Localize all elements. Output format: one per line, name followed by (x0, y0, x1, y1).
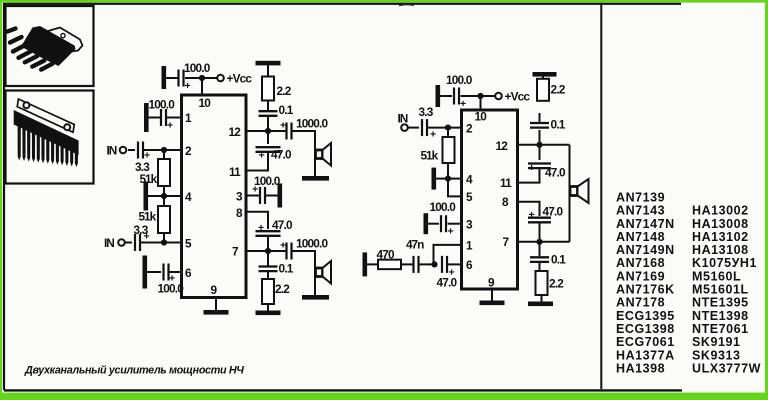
wire resistor to ground (542, 77, 544, 79)
wire node4 to pin 4 (448, 178, 462, 180)
svg-text:+: + (460, 98, 466, 110)
svg-text:NTE1398: NTE1398 (692, 309, 749, 323)
package picture box 2 (straight-pin SIP with flange) (6, 91, 94, 184)
svg-text:NTE1395: NTE1395 (692, 296, 749, 310)
svg-text:11: 11 (229, 165, 241, 179)
node (Vcc node left) (199, 75, 205, 81)
wire (428, 223, 439, 225)
svg-text:100.0: 100.0 (149, 98, 176, 112)
wire to speaker (292, 131, 316, 176)
capacitor 47.0 (pin12-pin11, right) (528, 164, 551, 169)
capacitor 100.0 (pin 3, right) (441, 215, 446, 232)
svg-text:100.0: 100.0 (158, 282, 185, 296)
svg-text:M5160L: M5160L (692, 269, 741, 283)
resistor 2.2 (top, right) (537, 79, 549, 101)
ground (speaker bottom, left) (302, 295, 329, 300)
wire pin 12 to node (518, 144, 540, 146)
ground (top, right) (533, 72, 557, 77)
wire node12 to output cap (268, 130, 286, 132)
part number list column 1 (616, 191, 675, 376)
svg-text:47.0: 47.0 (543, 205, 564, 219)
svg-text:ECG7061: ECG7061 (616, 335, 675, 349)
package 2 flange with two holes (17, 99, 74, 132)
wire pin 8 to cap (518, 202, 540, 216)
svg-text:Двухканальный усилитель мощнос: Двухканальный усилитель мощности НЧ (24, 365, 244, 377)
svg-text:+: + (280, 240, 286, 252)
ground (speaker top, left) (302, 176, 329, 181)
part number list column 2 (692, 204, 761, 376)
svg-text:AN7168: AN7168 (616, 256, 665, 270)
wire to pin 2 (428, 127, 462, 129)
resistor 470 (378, 260, 401, 270)
resistor 2.2 (bottom, right) (536, 271, 548, 295)
node (pin 2, right) (445, 125, 451, 131)
svg-text:+: + (280, 120, 286, 132)
svg-text:2.2: 2.2 (551, 83, 566, 97)
wire resistor to ground (367, 263, 378, 265)
wire node12 up (539, 130, 541, 145)
resistor 2.2 (bottom, left) (262, 279, 274, 304)
wire (440, 95, 452, 97)
op-amp IC U2 (right channel amplifier) (462, 110, 518, 289)
speaker LS2 (left circuit bottom) (316, 261, 332, 284)
svg-text:IN: IN (398, 112, 408, 126)
wire to pin 5 (141, 242, 182, 244)
wire resistor to node5 (163, 233, 165, 243)
wire resistor to ground (541, 295, 543, 302)
wire pin 3 to cap (246, 195, 259, 197)
wire resistor to ground (267, 304, 269, 311)
wire to pin 2 (144, 149, 182, 151)
wire node12 to speaker line (540, 144, 570, 146)
wire cap to pin 11 (246, 152, 268, 171)
svg-text:HA1377A: HA1377A (616, 348, 675, 362)
package 1 metal tab with hole (46, 28, 83, 53)
wire node4 down (163, 196, 165, 206)
svg-text:AN7178: AN7178 (616, 296, 665, 310)
capacitor 3.3 (input, right) (422, 119, 427, 136)
wire pin 7 to node (518, 241, 540, 243)
wire (125, 242, 132, 244)
wire pin 1 to node6 (434, 245, 462, 265)
capacitor 100.0 (Vcc filter, right) (454, 88, 459, 105)
ground (pin 6 RC, right) (363, 252, 368, 276)
input terminal (pin 5) (118, 239, 125, 246)
wire node7 down (539, 242, 541, 256)
wire cap to node7 (539, 223, 541, 242)
wire to pin 3 (448, 223, 462, 225)
svg-text:AN7169: AN7169 (616, 269, 665, 283)
ground (left circuit Vcc filter cap) (162, 66, 167, 89)
package 1 pins (8, 29, 53, 70)
package 2 pins (18, 125, 78, 167)
wire pin 10 to Vcc node (201, 78, 203, 95)
svg-text:10: 10 (199, 96, 212, 110)
svg-text:470: 470 (377, 248, 396, 262)
svg-text:47.0: 47.0 (437, 276, 458, 290)
wire to speaker (292, 251, 316, 295)
wire resistor to node4 (447, 163, 449, 179)
svg-text:47.0: 47.0 (272, 218, 293, 232)
svg-text:11: 11 (500, 176, 512, 190)
ground (top, left) (256, 61, 281, 66)
svg-text:ECG1398: ECG1398 (616, 322, 675, 336)
ground (pin 9, left) (204, 310, 229, 315)
node (pin 5) (161, 239, 167, 245)
op-amp IC U1 (left channel amplifier) (182, 95, 247, 298)
resistor 2.2 (top, left) (262, 77, 274, 101)
svg-text:HA13002: HA13002 (692, 204, 749, 218)
wire cap to ground (265, 195, 278, 197)
svg-text:47.0: 47.0 (545, 166, 566, 180)
bottom frame rule (4, 389, 682, 391)
node (pin 2) (161, 147, 167, 153)
ground (pin 3, right) (424, 213, 429, 234)
svg-text:12: 12 (496, 139, 509, 153)
svg-text:IN: IN (104, 236, 114, 250)
speaker LS (right circuit) (570, 179, 589, 203)
wire node12 down to cap (539, 145, 541, 160)
svg-text:AN7176K: AN7176K (616, 283, 675, 297)
terminal +Vcc (right) (495, 93, 502, 100)
capacitor 47.0 (pin8-pin7) (256, 231, 281, 236)
terminal +Vcc (left) (217, 75, 224, 82)
wire cap to resistor (267, 271, 269, 279)
wire resistor to cap (401, 263, 413, 265)
resistor 51k (pin2-pin4) (158, 159, 170, 186)
wire (408, 127, 419, 129)
svg-text:51k: 51k (421, 149, 439, 163)
capacitor 47.0 (pin12-pin11) (256, 147, 281, 152)
wire node12 up (267, 117, 269, 131)
svg-text:SK9191: SK9191 (692, 335, 740, 349)
node (pin 4) (161, 193, 167, 199)
node (pin 6, right) (431, 261, 437, 267)
wire resistor to ground (267, 65, 269, 77)
capacitor 47n (414, 256, 419, 273)
svg-text:AN7139: AN7139 (616, 191, 665, 205)
svg-text:100.0: 100.0 (254, 174, 281, 188)
wire pin 10 (480, 96, 482, 110)
svg-text:HA13008: HA13008 (692, 217, 749, 231)
wire cap to node7 (267, 236, 269, 251)
svg-text:100.0: 100.0 (446, 73, 473, 87)
svg-text:ECG1395: ECG1395 (616, 309, 675, 323)
wire cap to pin 11 (518, 168, 540, 183)
wire pin 8 to cap (246, 212, 268, 229)
input terminal (pin 2) (120, 147, 127, 154)
svg-text:NTE7061: NTE7061 (692, 322, 749, 336)
wire node4 to ground (148, 195, 164, 197)
resistor 51k (pin4-pin5) (158, 206, 170, 233)
svg-text:1000.0: 1000.0 (296, 117, 329, 131)
wire node4 to ground (436, 178, 448, 180)
svg-text:AN7148: AN7148 (616, 230, 665, 244)
svg-text:0.1: 0.1 (279, 103, 294, 117)
wire node2 down (447, 128, 449, 138)
wire resistor to node4 (163, 186, 165, 196)
wire cap to resistor (267, 101, 269, 111)
capacitor 47.0 (pin8-pin7, right) (528, 218, 551, 223)
svg-text:2.2: 2.2 (275, 282, 290, 296)
wire cap to resistor (539, 113, 541, 123)
package 1 black body (21, 26, 76, 66)
wire node7 to output cap (268, 250, 286, 252)
node (pin 12, left) (265, 128, 271, 134)
wire (185, 77, 217, 79)
scan artifact dash on top rule (399, 4, 414, 5)
wire to pin 1 (167, 117, 182, 119)
svg-text:0.1: 0.1 (551, 253, 566, 267)
svg-text:1000.0: 1000.0 (296, 237, 329, 251)
node (pin 7, left) (265, 248, 271, 254)
svg-text:0.1: 0.1 (279, 262, 294, 276)
svg-text:SK9313: SK9313 (692, 348, 740, 362)
wire node7 to speaker line (540, 241, 570, 243)
capacitor 3.3 (input, pin 2) (138, 142, 143, 159)
svg-text:+: + (529, 209, 535, 221)
capacitor 100.0 (pin 6, left) (164, 264, 169, 281)
wire (128, 149, 135, 151)
wire (461, 95, 496, 97)
ground (pin 4, right) (432, 168, 437, 190)
svg-text:HA13108: HA13108 (692, 243, 749, 257)
svg-text:IN: IN (107, 144, 117, 158)
ground (pin 3, left) (278, 184, 283, 208)
capacitor 0.1 (top, right) (530, 123, 549, 128)
svg-text:51k: 51k (139, 210, 157, 224)
ground (Vcc filter cap, right) (436, 85, 441, 107)
wire pin 9 to ground (215, 298, 217, 311)
node (pin 12, right) (536, 142, 542, 148)
svg-text:100.0: 100.0 (430, 200, 457, 214)
resistor 51k (right) (443, 137, 455, 163)
ground (bottom, left) (256, 311, 281, 316)
wire cap to node6 (420, 263, 435, 265)
svg-text:51k: 51k (140, 172, 158, 186)
svg-text:10: 10 (475, 110, 488, 124)
svg-text:M51601L: M51601L (692, 283, 749, 297)
ground (pin 1 cap, left) (144, 103, 149, 132)
ground (pin 6 cap, left) (143, 256, 148, 289)
node (pin 4, right) (445, 176, 451, 182)
ground (pin 4, left) (144, 182, 149, 211)
capacitor 0.1 (bottom, right) (530, 257, 549, 262)
svg-text:+: + (185, 80, 191, 92)
svg-text:47.0: 47.0 (271, 148, 292, 162)
wire speaker vertical (569, 145, 571, 242)
svg-text:+: + (448, 226, 454, 238)
svg-text:+: + (430, 129, 436, 141)
svg-text:47n: 47n (406, 238, 424, 252)
wire pin 12 to node (246, 130, 268, 132)
capacitor 100.0 (Vcc filter, left) (179, 70, 184, 87)
wire cap to pin 6 (448, 263, 462, 265)
svg-text:AN7147N: AN7147N (616, 217, 675, 231)
wire node2 to resistor (163, 150, 165, 159)
capacitor 100.0 (pin 3, left) (260, 187, 265, 204)
wire pin 9 to ground (491, 289, 493, 301)
svg-text:AN7143: AN7143 (616, 204, 665, 218)
wire (147, 271, 161, 273)
svg-text:0.1: 0.1 (551, 118, 566, 132)
capacitor 0.1 (top, left) (259, 111, 278, 116)
wire node7 down (267, 251, 269, 266)
package 1 tab hole (61, 34, 65, 38)
svg-text:AN7149N: AN7149N (616, 243, 675, 257)
svg-text:3.3: 3.3 (419, 105, 434, 119)
wire node4 to pin4 (164, 195, 182, 197)
capacitor 100.0 (pin 1, left) (161, 109, 166, 126)
capacitor 3.3 (input, pin 5) (135, 234, 140, 251)
svg-text:HA13102: HA13102 (692, 230, 749, 244)
wire (166, 77, 178, 79)
svg-text:K1075УН1: K1075УН1 (692, 256, 757, 270)
wire node12 down to cap (267, 131, 269, 144)
wire (149, 117, 161, 119)
ground (pin 9, right) (480, 301, 505, 306)
divider rule between schematic and part list (600, 4, 602, 389)
input terminal (right) (401, 124, 408, 131)
svg-text:100.0: 100.0 (184, 61, 211, 75)
svg-text:2.2: 2.2 (549, 277, 564, 291)
svg-text:2.2: 2.2 (277, 84, 292, 98)
svg-text:+: + (167, 120, 173, 132)
package 2 black body (14, 110, 79, 155)
svg-text:HA1398: HA1398 (616, 362, 665, 376)
capacitor 1000.0 (output, pin 7) (287, 243, 292, 260)
node (Vcc node right) (477, 93, 483, 99)
svg-text:3.3: 3.3 (134, 223, 149, 237)
speaker LS1 (left circuit top) (316, 143, 332, 166)
capacitor 0.1 (bottom, left) (259, 267, 278, 272)
capacitor 1000.0 (output, pin 12) (287, 123, 292, 140)
wire pin4 to pin5 link (448, 179, 462, 197)
ground (bottom, right) (528, 302, 553, 307)
svg-text:12: 12 (229, 125, 242, 139)
wire cap to resistor (539, 262, 541, 271)
node (pin 7, right) (536, 239, 542, 245)
svg-text:+Vcc: +Vcc (505, 90, 531, 104)
package picture box 1 (zig-zag SIP, 3D view) (6, 6, 94, 86)
wire to pin 6 (170, 271, 182, 273)
svg-text:+Vcc: +Vcc (227, 72, 253, 86)
wire pin 7 to node (246, 250, 268, 252)
capacitor 47.0 (pin 6, right) (442, 256, 447, 273)
svg-text:ULX3777W: ULX3777W (692, 362, 761, 376)
